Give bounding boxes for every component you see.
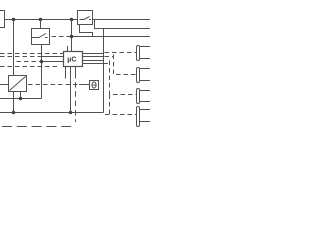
plug P4: [137, 107, 152, 127]
dashed route to plug P2: [114, 55, 137, 75]
dashed line D2 y=56.5 left part: [0, 56, 41, 58]
wire solid y=56.5 from junction to uC: [41, 56, 64, 58]
sensor line solid to theta box: [79, 84, 90, 86]
bus N horizontal y=112.5: [0, 112, 104, 114]
uC right pin 4: [83, 63, 104, 65]
wire branch from L down to output y=28.5: [95, 20, 151, 29]
svg-text:µC: µC: [67, 56, 76, 63]
relay K2 (switch box): [78, 11, 93, 25]
node junction at (70.5,112.5): [69, 111, 72, 114]
wire down to power supply (x=13.5 vertical): [13, 20, 15, 76]
dashed stub pin4 to vertical: [104, 63, 110, 65]
uC top stub pin: [67, 46, 69, 52]
wire solid y=61.5 from junction to uC: [42, 61, 64, 63]
uC right pin 1: [83, 53, 104, 55]
wire stub left of power supply y=84.5: [0, 84, 9, 86]
node junction at x=13.5: [12, 18, 15, 21]
dashed line D3 y=61.5 left part: [17, 61, 41, 63]
plug P2: [137, 68, 152, 83]
node junction at x=71.5: [70, 18, 73, 21]
uC bottom pin 2 to bus N: [70, 67, 72, 113]
node junction at (20.5,98.5): [19, 97, 22, 100]
wire K2 bottom pin down-right-down: [80, 25, 93, 37]
uC bottom pin 1: [65, 67, 67, 79]
bus A horizontal y=98.5: [0, 98, 42, 100]
node junction at (71.5,36.5): [70, 35, 73, 38]
wire dashed stub left of junction: [52, 36, 71, 38]
dashed bottom line y=126.5: [2, 126, 72, 128]
dashed route to plug P1: [105, 52, 137, 54]
microcontroller U1: [64, 52, 83, 67]
uC bottom pin 3: [75, 67, 77, 79]
connector X1 (left edge box): [0, 11, 5, 28]
node junction at (41.5,61.5): [40, 60, 43, 63]
dashed vertical from pin 3 down: [75, 82, 77, 122]
plug P3: [137, 89, 152, 104]
node junction at (13.5,112.5): [12, 111, 15, 114]
dashed route to plug P4: [105, 95, 110, 115]
wire down to relay K1 top pin: [40, 20, 42, 29]
wire power supply stub to bus N: [13, 92, 15, 113]
wire down from junction to uC (x=71.5 vertical): [71, 20, 73, 52]
wire relay K1 bottom to bus A: [41, 45, 43, 99]
wire L main horizontal y=19.5: [5, 19, 151, 21]
temperature sensor B1 (theta box): [90, 81, 99, 90]
wire power supply stub to bus A: [20, 92, 22, 99]
dashed route to plug P3: [110, 61, 137, 95]
node junction at x=40.5: [39, 18, 42, 21]
dashed line D1 y=53.5: [0, 53, 64, 55]
dashed line D4 y=66.5: [0, 66, 58, 68]
relay K1 (switch box): [32, 29, 50, 45]
uC right pin 2: [83, 56, 104, 58]
dashed stub pin2 to c2 vertical: [105, 56, 114, 58]
wire control line y=36.5 to right edge: [72, 36, 151, 38]
wire vertical x=103.5 down to bus N: [103, 29, 105, 113]
plug P1: [137, 46, 152, 61]
uC right pin 3: [83, 60, 104, 62]
sensor line dashed y=84.5: [28, 84, 79, 86]
power supply U2 (box with diagonal): [9, 76, 27, 92]
